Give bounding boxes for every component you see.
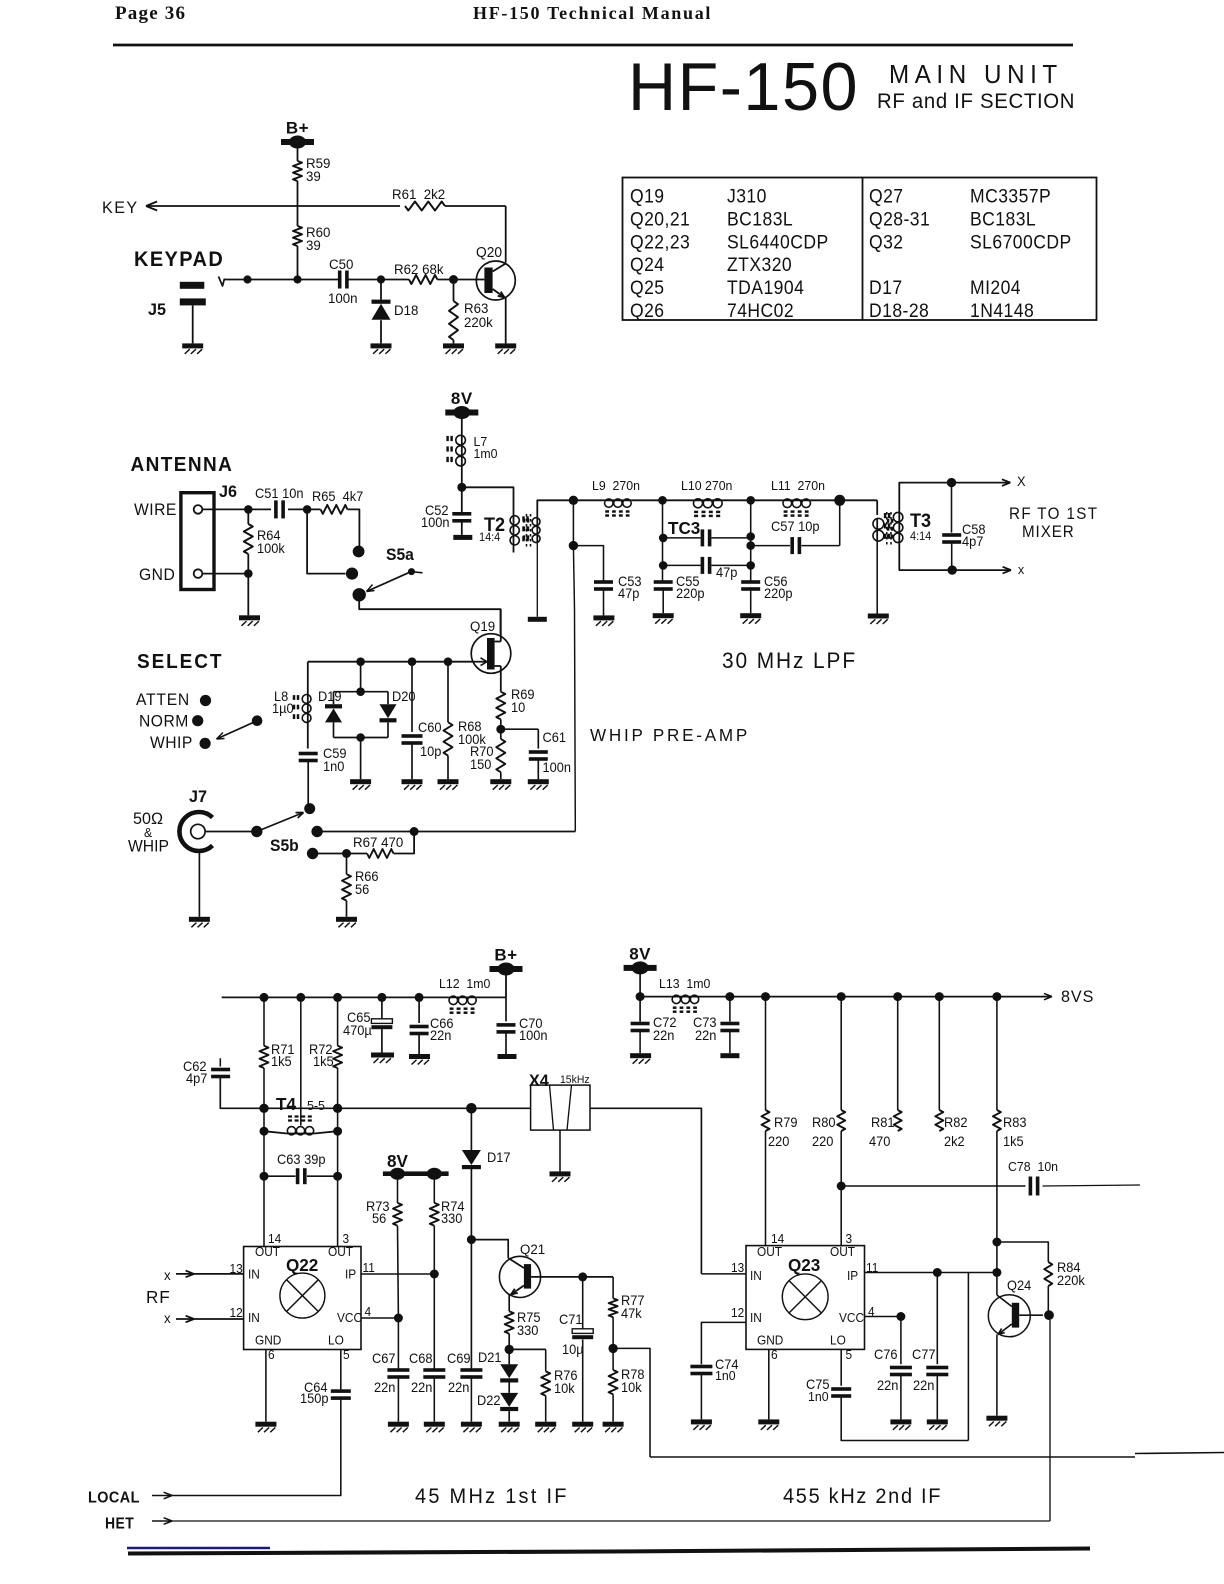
- node: [430, 1270, 439, 1279]
- svg-text:45 MHz 1st IF: 45 MHz 1st IF: [415, 1485, 569, 1509]
- svg-text:R80: R80: [812, 1115, 836, 1130]
- svg-text:BC183L: BC183L: [970, 208, 1036, 230]
- svg-text:22n: 22n: [411, 1380, 432, 1395]
- wire R80 to pin3: [840, 1131, 842, 1247]
- capacitor C72: [631, 1022, 650, 1026]
- svg-text:x: x: [1018, 563, 1025, 577]
- svg-text:C50: C50: [329, 257, 354, 272]
- inductor L9: [604, 499, 631, 501]
- svg-text:4: 4: [365, 1305, 372, 1319]
- label 8VS with arrow: [1042, 993, 1052, 999]
- resistor R65: [321, 505, 348, 514]
- mixer IC Q22 box: [244, 1247, 361, 1350]
- wire HET riser: [1049, 1320, 1051, 1521]
- wire: [220, 1078, 530, 1109]
- svg-text:IP: IP: [847, 1269, 858, 1283]
- svg-text:74HC02: 74HC02: [727, 299, 794, 321]
- svg-text:2k2: 2k2: [944, 1134, 965, 1149]
- connector J5: [180, 282, 205, 289]
- capacitor C70: [505, 997, 507, 1021]
- svg-text:Q19: Q19: [630, 185, 665, 207]
- svg-text:Q22: Q22: [286, 1255, 319, 1276]
- svg-text:47k: 47k: [621, 1306, 642, 1321]
- svg-text:R79: R79: [774, 1115, 798, 1130]
- svg-text:56: 56: [372, 1211, 386, 1226]
- node: [1044, 1310, 1054, 1320]
- ground: [371, 1053, 394, 1058]
- svg-text:22n: 22n: [430, 1028, 451, 1043]
- wire LO feedback: [841, 1398, 968, 1441]
- node: [467, 1235, 476, 1244]
- capacitor C59: [299, 752, 318, 756]
- wire LOCAL line: [170, 1400, 341, 1496]
- node: [377, 993, 386, 1002]
- svg-text:10k: 10k: [554, 1381, 575, 1396]
- svg-text:3: 3: [846, 1232, 853, 1246]
- svg-text:J5: J5: [148, 300, 166, 319]
- svg-text:4p7: 4p7: [186, 1071, 207, 1086]
- svg-text:22n: 22n: [374, 1380, 395, 1395]
- node B: [746, 496, 755, 505]
- ground: [528, 779, 549, 784]
- svg-text:5: 5: [343, 1348, 350, 1362]
- svg-text:8VS: 8VS: [1061, 987, 1094, 1006]
- svg-text:R65 4k7: R65 4k7: [312, 489, 363, 504]
- power B+ supply symbol: [281, 139, 314, 145]
- node A: [658, 496, 667, 505]
- svg-text:L12 1m0: L12 1m0: [439, 977, 490, 991]
- svg-text:Q26: Q26: [630, 299, 665, 321]
- wire diode rail top: [334, 691, 389, 693]
- svg-text:330: 330: [517, 1323, 538, 1338]
- resistor R82: [938, 997, 940, 1110]
- resistor R60: [293, 226, 302, 246]
- ground: [890, 1419, 911, 1424]
- svg-text:3: 3: [343, 1232, 350, 1246]
- svg-text:D22: D22: [477, 1393, 501, 1408]
- footer rule: [128, 1549, 1090, 1554]
- node: [333, 993, 342, 1002]
- wire VCC pin4: [361, 1317, 398, 1319]
- svg-text:R61 2k2: R61 2k2: [392, 187, 445, 202]
- node: [837, 992, 846, 1001]
- resistor R75: [505, 1311, 514, 1334]
- svg-text:R83: R83: [1003, 1115, 1027, 1130]
- capacitor C67: [397, 1318, 399, 1369]
- wire: [263, 1176, 265, 1246]
- svg-text:ANTENNA: ANTENNA: [131, 454, 234, 477]
- switch select lever: [252, 715, 263, 726]
- node: [243, 275, 251, 283]
- svg-text:J310: J310: [727, 185, 767, 207]
- svg-text:12: 12: [230, 1306, 243, 1320]
- ground: [255, 1422, 276, 1427]
- svg-text:D17: D17: [487, 1150, 511, 1165]
- svg-text:220k: 220k: [464, 315, 493, 330]
- resistor R76: [509, 1348, 546, 1350]
- wire keypad input: [219, 277, 225, 287]
- svg-text:56: 56: [355, 882, 369, 897]
- capacitor C77: [936, 1273, 938, 1365]
- ground bar T2 secondary: [528, 617, 547, 622]
- resistor R83 lower wire: [996, 1131, 998, 1295]
- node: [260, 993, 269, 1002]
- svg-text:100k: 100k: [257, 541, 285, 556]
- svg-text:14:4: 14:4: [479, 532, 500, 544]
- svg-text:NORM: NORM: [139, 712, 189, 730]
- svg-text:220p: 220p: [764, 586, 793, 601]
- svg-text:IN: IN: [750, 1269, 762, 1283]
- svg-text:1n0: 1n0: [323, 759, 344, 774]
- svg-text:5: 5: [846, 1348, 853, 1362]
- node: [303, 505, 312, 514]
- svg-text:30 MHz LPF: 30 MHz LPF: [722, 649, 857, 674]
- capacitor C71 electrolytic: [582, 1277, 584, 1329]
- capacitor C68: [433, 1274, 435, 1369]
- svg-text:100n: 100n: [519, 1028, 548, 1043]
- inductor L13: [640, 996, 672, 998]
- resistor R61: [405, 202, 445, 211]
- svg-text:GND: GND: [255, 1333, 282, 1347]
- svg-text:GND: GND: [757, 1333, 784, 1347]
- svg-text:14: 14: [771, 1232, 784, 1246]
- wire: [263, 1108, 265, 1176]
- ground: [603, 1422, 624, 1427]
- resistor R64: [247, 509, 249, 524]
- wire x output upper: [952, 482, 1011, 484]
- capacitor C75 on LO pin5: [840, 1349, 842, 1385]
- resistor R78: [609, 1370, 618, 1394]
- ground: [239, 615, 260, 620]
- wire R79 to pin14: [765, 1131, 767, 1247]
- svg-text:TDA1904: TDA1904: [727, 276, 804, 298]
- wire: [297, 145, 299, 161]
- svg-text:LO: LO: [830, 1333, 846, 1347]
- svg-text:R82: R82: [944, 1115, 968, 1130]
- capacitor C52: [452, 512, 471, 516]
- svg-text:455 kHz 2nd IF: 455 kHz 2nd IF: [783, 1485, 942, 1509]
- node C59 to S5b: [304, 803, 315, 814]
- capacitor C63: [260, 1172, 269, 1181]
- node: [992, 1268, 1001, 1277]
- svg-text:13: 13: [731, 1261, 744, 1275]
- wire: [573, 499, 604, 501]
- node: [293, 275, 301, 283]
- ground: [495, 343, 516, 348]
- resistor R83: [996, 997, 998, 1110]
- node: [608, 1344, 617, 1353]
- svg-text:Q24: Q24: [1007, 1278, 1031, 1293]
- svg-text:HF-150: HF-150: [628, 49, 859, 125]
- svg-text:39: 39: [306, 238, 321, 253]
- ground: [550, 1171, 571, 1176]
- node: [746, 541, 755, 550]
- svg-text:OUT: OUT: [830, 1245, 856, 1259]
- wire LO feedback riser: [967, 1273, 969, 1441]
- ground: [461, 1422, 482, 1427]
- svg-text:10: 10: [511, 700, 525, 715]
- svg-text:Q19: Q19: [470, 619, 495, 634]
- wire: [205, 831, 251, 833]
- svg-text:5-5: 5-5: [307, 1099, 325, 1113]
- wire: [307, 723, 309, 749]
- svg-text:1m0: 1m0: [474, 447, 498, 461]
- svg-text:100n: 100n: [421, 515, 450, 530]
- resistor R84: [997, 1242, 1048, 1262]
- resistor R69: [496, 692, 505, 720]
- svg-text:L10 270n: L10 270n: [681, 479, 732, 493]
- wire 8VS bus: [699, 996, 1051, 998]
- svg-text:D21: D21: [478, 1350, 502, 1365]
- svg-text:IN: IN: [248, 1311, 260, 1325]
- node: [244, 505, 253, 514]
- wire: [811, 499, 877, 501]
- svg-text:LO: LO: [328, 1333, 344, 1347]
- svg-text:X: X: [1017, 474, 1026, 489]
- wire Q24 base node: [1019, 1314, 1043, 1316]
- node: [746, 561, 755, 570]
- resistor R67: [367, 849, 393, 858]
- svg-text:R81: R81: [871, 1115, 895, 1130]
- wire: [505, 972, 507, 997]
- node: [947, 478, 956, 487]
- svg-text:1k5: 1k5: [271, 1054, 292, 1069]
- svg-text:C69: C69: [447, 1351, 471, 1366]
- svg-text:R67 470: R67 470: [353, 835, 404, 850]
- resistor R80: [840, 997, 842, 1110]
- svg-text:22n: 22n: [448, 1380, 469, 1395]
- wire IP pin11: [865, 1272, 997, 1274]
- svg-text:47p: 47p: [716, 565, 737, 580]
- svg-text:10µ: 10µ: [562, 1342, 584, 1357]
- ground: [443, 343, 464, 348]
- svg-text:1n0: 1n0: [715, 1369, 736, 1383]
- capacitor C76: [900, 1317, 902, 1365]
- wire T3 secondary top: [899, 483, 951, 512]
- ground: [182, 343, 203, 348]
- node: [333, 1104, 342, 1113]
- wire to C53: [573, 546, 603, 582]
- svg-text:C78 10n: C78 10n: [1008, 1160, 1058, 1174]
- wire 455 kHz separator: [650, 1456, 1135, 1458]
- power 8V supply symbol: [445, 410, 478, 416]
- svg-text:KEY: KEY: [102, 198, 139, 217]
- svg-text:C67: C67: [372, 1351, 396, 1366]
- svg-text:1µ0: 1µ0: [272, 701, 294, 716]
- svg-text:WIRE: WIRE: [134, 501, 177, 519]
- capacitor 47p second trimmer: [659, 561, 668, 570]
- inductor L10: [693, 499, 722, 501]
- ground: [927, 1419, 948, 1424]
- svg-text:D18: D18: [394, 303, 418, 318]
- svg-text:IP: IP: [345, 1267, 356, 1281]
- node: [896, 1312, 905, 1321]
- node: [935, 992, 944, 1001]
- svg-text:220: 220: [768, 1134, 789, 1149]
- svg-text:J7: J7: [189, 787, 207, 806]
- diode D17: [470, 1108, 472, 1150]
- svg-text:Q24: Q24: [630, 253, 665, 275]
- svg-text:WHIP: WHIP: [150, 734, 193, 752]
- node: [933, 1268, 942, 1277]
- node: [761, 992, 770, 1001]
- svg-text:x: x: [164, 1311, 171, 1326]
- svg-text:470µ: 470µ: [343, 1023, 372, 1038]
- svg-text:Q27: Q27: [869, 185, 904, 207]
- wire VCC pin4: [865, 1316, 901, 1318]
- node: [725, 992, 734, 1001]
- wire: [632, 499, 694, 501]
- wire: [247, 574, 249, 616]
- ground: [653, 613, 674, 618]
- power B+ supply symbol bottom: [490, 966, 523, 972]
- capacitor C69: [460, 1368, 482, 1372]
- header rule: [113, 44, 1073, 47]
- wire node B branch: [750, 500, 752, 581]
- svg-text:470: 470: [869, 1134, 890, 1149]
- wire: [307, 762, 309, 808]
- svg-text:Q25: Q25: [630, 276, 665, 298]
- capacitor C78: [841, 1185, 1025, 1187]
- ground: [189, 917, 210, 922]
- svg-text:1k5: 1k5: [1003, 1134, 1024, 1149]
- wire: [297, 246, 299, 280]
- node: [569, 541, 578, 550]
- wire GND pin6: [768, 1349, 770, 1419]
- wire: [349, 279, 410, 281]
- resistor R72: [337, 997, 339, 1045]
- svg-text:4p7: 4p7: [962, 534, 983, 549]
- svg-text:D18-28: D18-28: [869, 299, 929, 321]
- svg-text:C61: C61: [543, 730, 567, 745]
- resistor R77: [612, 1277, 614, 1299]
- capacitor C61: [501, 728, 539, 730]
- svg-text:D19: D19: [318, 689, 342, 704]
- svg-text:15kHz: 15kHz: [560, 1074, 590, 1086]
- wire: [288, 508, 321, 510]
- svg-text:100n: 100n: [328, 291, 358, 306]
- ground: [424, 1422, 445, 1427]
- capacitor C57: [751, 545, 790, 547]
- ground: [572, 1422, 593, 1427]
- svg-text:150p: 150p: [300, 1391, 329, 1406]
- ground: [630, 1053, 651, 1058]
- svg-text:OUT: OUT: [255, 1245, 281, 1259]
- resistor R63: [453, 280, 455, 302]
- node: [948, 565, 957, 574]
- capacitor C64 on LO pin5: [340, 1350, 342, 1390]
- parts table box: [623, 178, 1097, 321]
- svg-text:C68: C68: [409, 1351, 433, 1366]
- svg-text:C71: C71: [559, 1312, 583, 1327]
- svg-text:MI204: MI204: [970, 276, 1021, 298]
- ground: [438, 779, 459, 784]
- inductor L12: [449, 996, 477, 998]
- node: [636, 992, 645, 1001]
- ground: [499, 1422, 520, 1427]
- capacitor C55: [654, 580, 673, 584]
- svg-text:C63 39p: C63 39p: [277, 1152, 325, 1167]
- svg-text:Q21: Q21: [520, 1242, 545, 1257]
- svg-text:Page 36: Page 36: [115, 3, 186, 24]
- svg-text:4:14: 4:14: [910, 531, 931, 543]
- svg-text:IN: IN: [248, 1267, 260, 1281]
- svg-text:RF and IF SECTION: RF and IF SECTION: [877, 90, 1075, 113]
- resistor R79: [765, 997, 767, 1110]
- power 8V supply right: [624, 965, 657, 971]
- svg-text:1k5: 1k5: [313, 1054, 334, 1069]
- node: [466, 1103, 477, 1114]
- ground: [402, 779, 423, 784]
- svg-text:11: 11: [363, 1261, 376, 1275]
- svg-text:12: 12: [731, 1306, 744, 1320]
- svg-text:HF-150 Technical Manual: HF-150 Technical Manual: [473, 3, 712, 23]
- wire whip bypass vertical: [573, 546, 575, 832]
- svg-text:T4: T4: [276, 1094, 296, 1115]
- ground: [758, 1419, 779, 1424]
- wire: [437, 279, 484, 281]
- svg-text:14: 14: [268, 1232, 281, 1246]
- node C: [834, 495, 845, 506]
- svg-text:C51 10n: C51 10n: [255, 486, 303, 501]
- svg-text:R62 68k: R62 68k: [394, 262, 444, 277]
- switch S5b bottom contact: [307, 848, 318, 859]
- inductor L8: [307, 662, 309, 694]
- resistor R74: [433, 1176, 435, 1203]
- svg-text:330: 330: [441, 1211, 462, 1226]
- wire: [445, 205, 506, 207]
- svg-text:22n: 22n: [877, 1378, 898, 1393]
- svg-text:IN: IN: [750, 1311, 762, 1325]
- ground: [409, 1054, 430, 1059]
- ground: [593, 615, 614, 620]
- inductor L11: [783, 499, 811, 501]
- svg-text:22n: 22n: [653, 1028, 674, 1043]
- svg-text:6: 6: [771, 1348, 778, 1362]
- capacitor C73: [729, 997, 731, 1022]
- svg-text:GND: GND: [139, 566, 175, 584]
- diode pair node: [356, 657, 365, 666]
- wire IP pin11: [361, 1273, 434, 1275]
- node: [394, 1314, 403, 1323]
- svg-text:B+: B+: [286, 119, 309, 138]
- svg-text:T3: T3: [910, 510, 931, 532]
- wire R77 R78 node to 455 line: [613, 1348, 650, 1457]
- capacitor C51: [274, 500, 278, 518]
- svg-text:6: 6: [268, 1348, 275, 1362]
- node: [259, 1104, 268, 1113]
- svg-text:10k: 10k: [621, 1380, 642, 1395]
- svg-text:OUT: OUT: [757, 1245, 783, 1259]
- switch S5b pole: [251, 826, 262, 837]
- wire: [461, 416, 463, 435]
- svg-text:22n: 22n: [913, 1378, 934, 1393]
- resistor R71: [263, 997, 265, 1045]
- svg-text:RF: RF: [146, 1287, 171, 1308]
- capacitor C50: [338, 271, 342, 289]
- svg-text:Q32: Q32: [869, 230, 904, 252]
- capacitor C74: [690, 1365, 712, 1369]
- svg-text:x: x: [164, 1268, 171, 1283]
- wire Q21 collector: [471, 1240, 508, 1258]
- ground bar: [453, 535, 472, 540]
- inductor L7: [461, 435, 463, 466]
- wire: [297, 181, 299, 226]
- svg-text:X4: X4: [529, 1071, 550, 1090]
- ground: [388, 1422, 409, 1427]
- wire pin12 to C74: [701, 1322, 746, 1364]
- svg-text:L11 270n: L11 270n: [771, 479, 825, 493]
